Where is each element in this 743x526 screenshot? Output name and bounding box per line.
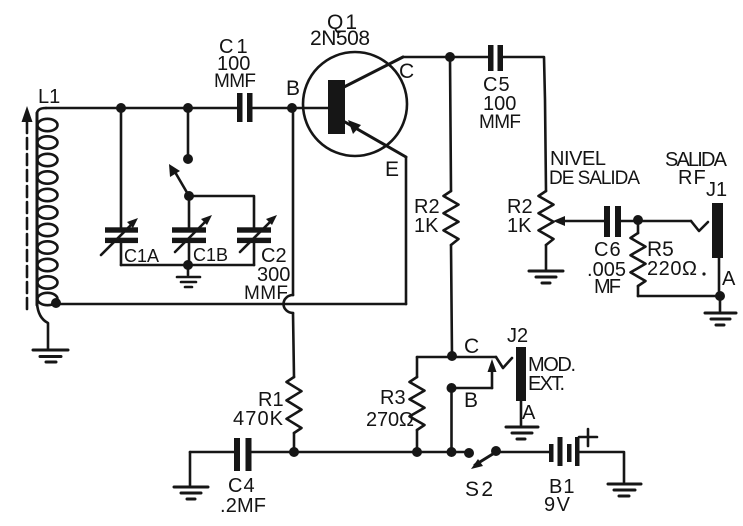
potentiometer R2 nivel de salida (507, 148, 640, 269)
node at J1 sleeve (715, 291, 725, 301)
wire collector rail (403, 56, 488, 59)
wire node B contact down (450, 388, 453, 452)
node: C1A tap (116, 103, 126, 113)
battery B1 (544, 429, 597, 516)
ground at C1B (177, 265, 200, 287)
svg-text:C1B: C1B (193, 245, 228, 265)
svg-text:J1: J1 (706, 179, 727, 201)
svg-text:220Ω: 220Ω (647, 258, 697, 280)
svg-text:C: C (464, 335, 479, 358)
svg-text:L1: L1 (38, 86, 60, 108)
node at C1B bottom (183, 260, 193, 270)
wire R5 bottom to J1 sleeve (638, 295, 720, 298)
wire emitter riser (405, 157, 408, 304)
svg-text:C4: C4 (228, 475, 256, 497)
resistor R3 (366, 357, 425, 452)
svg-text:9 V: 9 V (544, 494, 571, 516)
wire top rail (46, 107, 237, 110)
wire cap bottoms (121, 264, 254, 267)
svg-text:RF: RF (678, 167, 707, 189)
svg-text:1K: 1K (414, 215, 439, 237)
svg-text:J2: J2 (507, 325, 528, 347)
svg-text:S2: S2 (465, 478, 493, 501)
svg-text:MF: MF (594, 276, 621, 298)
wire J2 contact B to rail (452, 387, 493, 390)
wire top rail right of C1 to base (252, 107, 329, 110)
svg-text:C6: C6 (594, 239, 622, 261)
ground at L1 (33, 350, 68, 362)
ground at potentiometer (529, 271, 563, 283)
svg-text:A: A (522, 402, 536, 424)
node S2 left pole (464, 448, 474, 458)
svg-text:B: B (286, 77, 300, 100)
selector switch (169, 108, 194, 201)
capacitor C1B (172, 196, 228, 265)
node C (447, 351, 457, 361)
svg-text:NIVEL: NIVEL (550, 148, 606, 170)
svg-text:270Ω: 270Ω (366, 409, 414, 431)
node B contact (447, 383, 457, 393)
switch S2 (465, 452, 496, 501)
node: switch tap (183, 103, 193, 113)
node R1 bottom (289, 447, 299, 457)
node after C6 (633, 215, 643, 225)
ground at J2 (506, 427, 538, 439)
jack J2 (496, 325, 576, 425)
wire switch to C2 (189, 196, 254, 228)
wire battery to ground corner (579, 452, 624, 482)
svg-text:MMF: MMF (214, 71, 256, 92)
ground at C4 (174, 452, 208, 499)
svg-text:MMF: MMF (479, 112, 521, 133)
svg-text:.2MF: .2MF (220, 495, 266, 517)
wire node B down to R1 with hop over mid rail (284, 108, 295, 377)
capacitor C1 (214, 36, 256, 122)
wire C6 to J1 tip contact (621, 220, 691, 223)
svg-text:E: E (385, 158, 399, 181)
capacitor C6 (587, 206, 626, 298)
svg-text:C1A: C1A (124, 246, 159, 266)
wire bottom rail left (190, 451, 234, 454)
transistor Q1 (286, 11, 414, 181)
svg-text:MMF: MMF (244, 283, 288, 304)
wire mid rail (L1 bottom to emitter) (55, 303, 406, 306)
node at collector rail (445, 52, 455, 62)
svg-text:A: A (722, 268, 736, 290)
ground at battery (608, 484, 641, 496)
svg-text:DE SALIDA: DE SALIDA (549, 168, 640, 189)
capacitor C5 (479, 45, 521, 133)
inductor L1 (37, 86, 60, 349)
jack J2 switch contact arrow (488, 359, 497, 388)
node S2 right pole (491, 446, 501, 456)
node R3 bottom (412, 447, 422, 457)
node J2 B line bottom (447, 447, 457, 457)
capacitor C4 (220, 438, 266, 517)
wire node C horizontal (417, 356, 496, 359)
svg-text:C: C (399, 60, 414, 83)
L1 adjustable core dashed arrow (22, 106, 33, 310)
svg-text:R3: R3 (380, 387, 406, 409)
jack J1 (665, 149, 736, 296)
wire bottom rail S2 to battery (497, 451, 549, 454)
svg-text:2N508: 2N508 (310, 27, 370, 50)
capacitor C1A (101, 108, 159, 266)
node B (287, 103, 297, 113)
svg-text:EXT.: EXT. (528, 373, 565, 395)
ground at J1 (705, 296, 736, 325)
capacitor C2 (237, 215, 290, 304)
wire collector rail right of C5 with corner down (503, 57, 546, 191)
wire bottom rail C4 to S2 (251, 451, 469, 454)
svg-text:1K: 1K (507, 215, 532, 237)
resistor R5 (631, 221, 706, 296)
svg-text:B: B (464, 389, 478, 412)
node at L1 bottom tap (51, 298, 61, 308)
resistor R1 (233, 377, 302, 452)
resistor R2 (collector load) (414, 57, 459, 356)
svg-text:470K: 470K (233, 408, 284, 430)
